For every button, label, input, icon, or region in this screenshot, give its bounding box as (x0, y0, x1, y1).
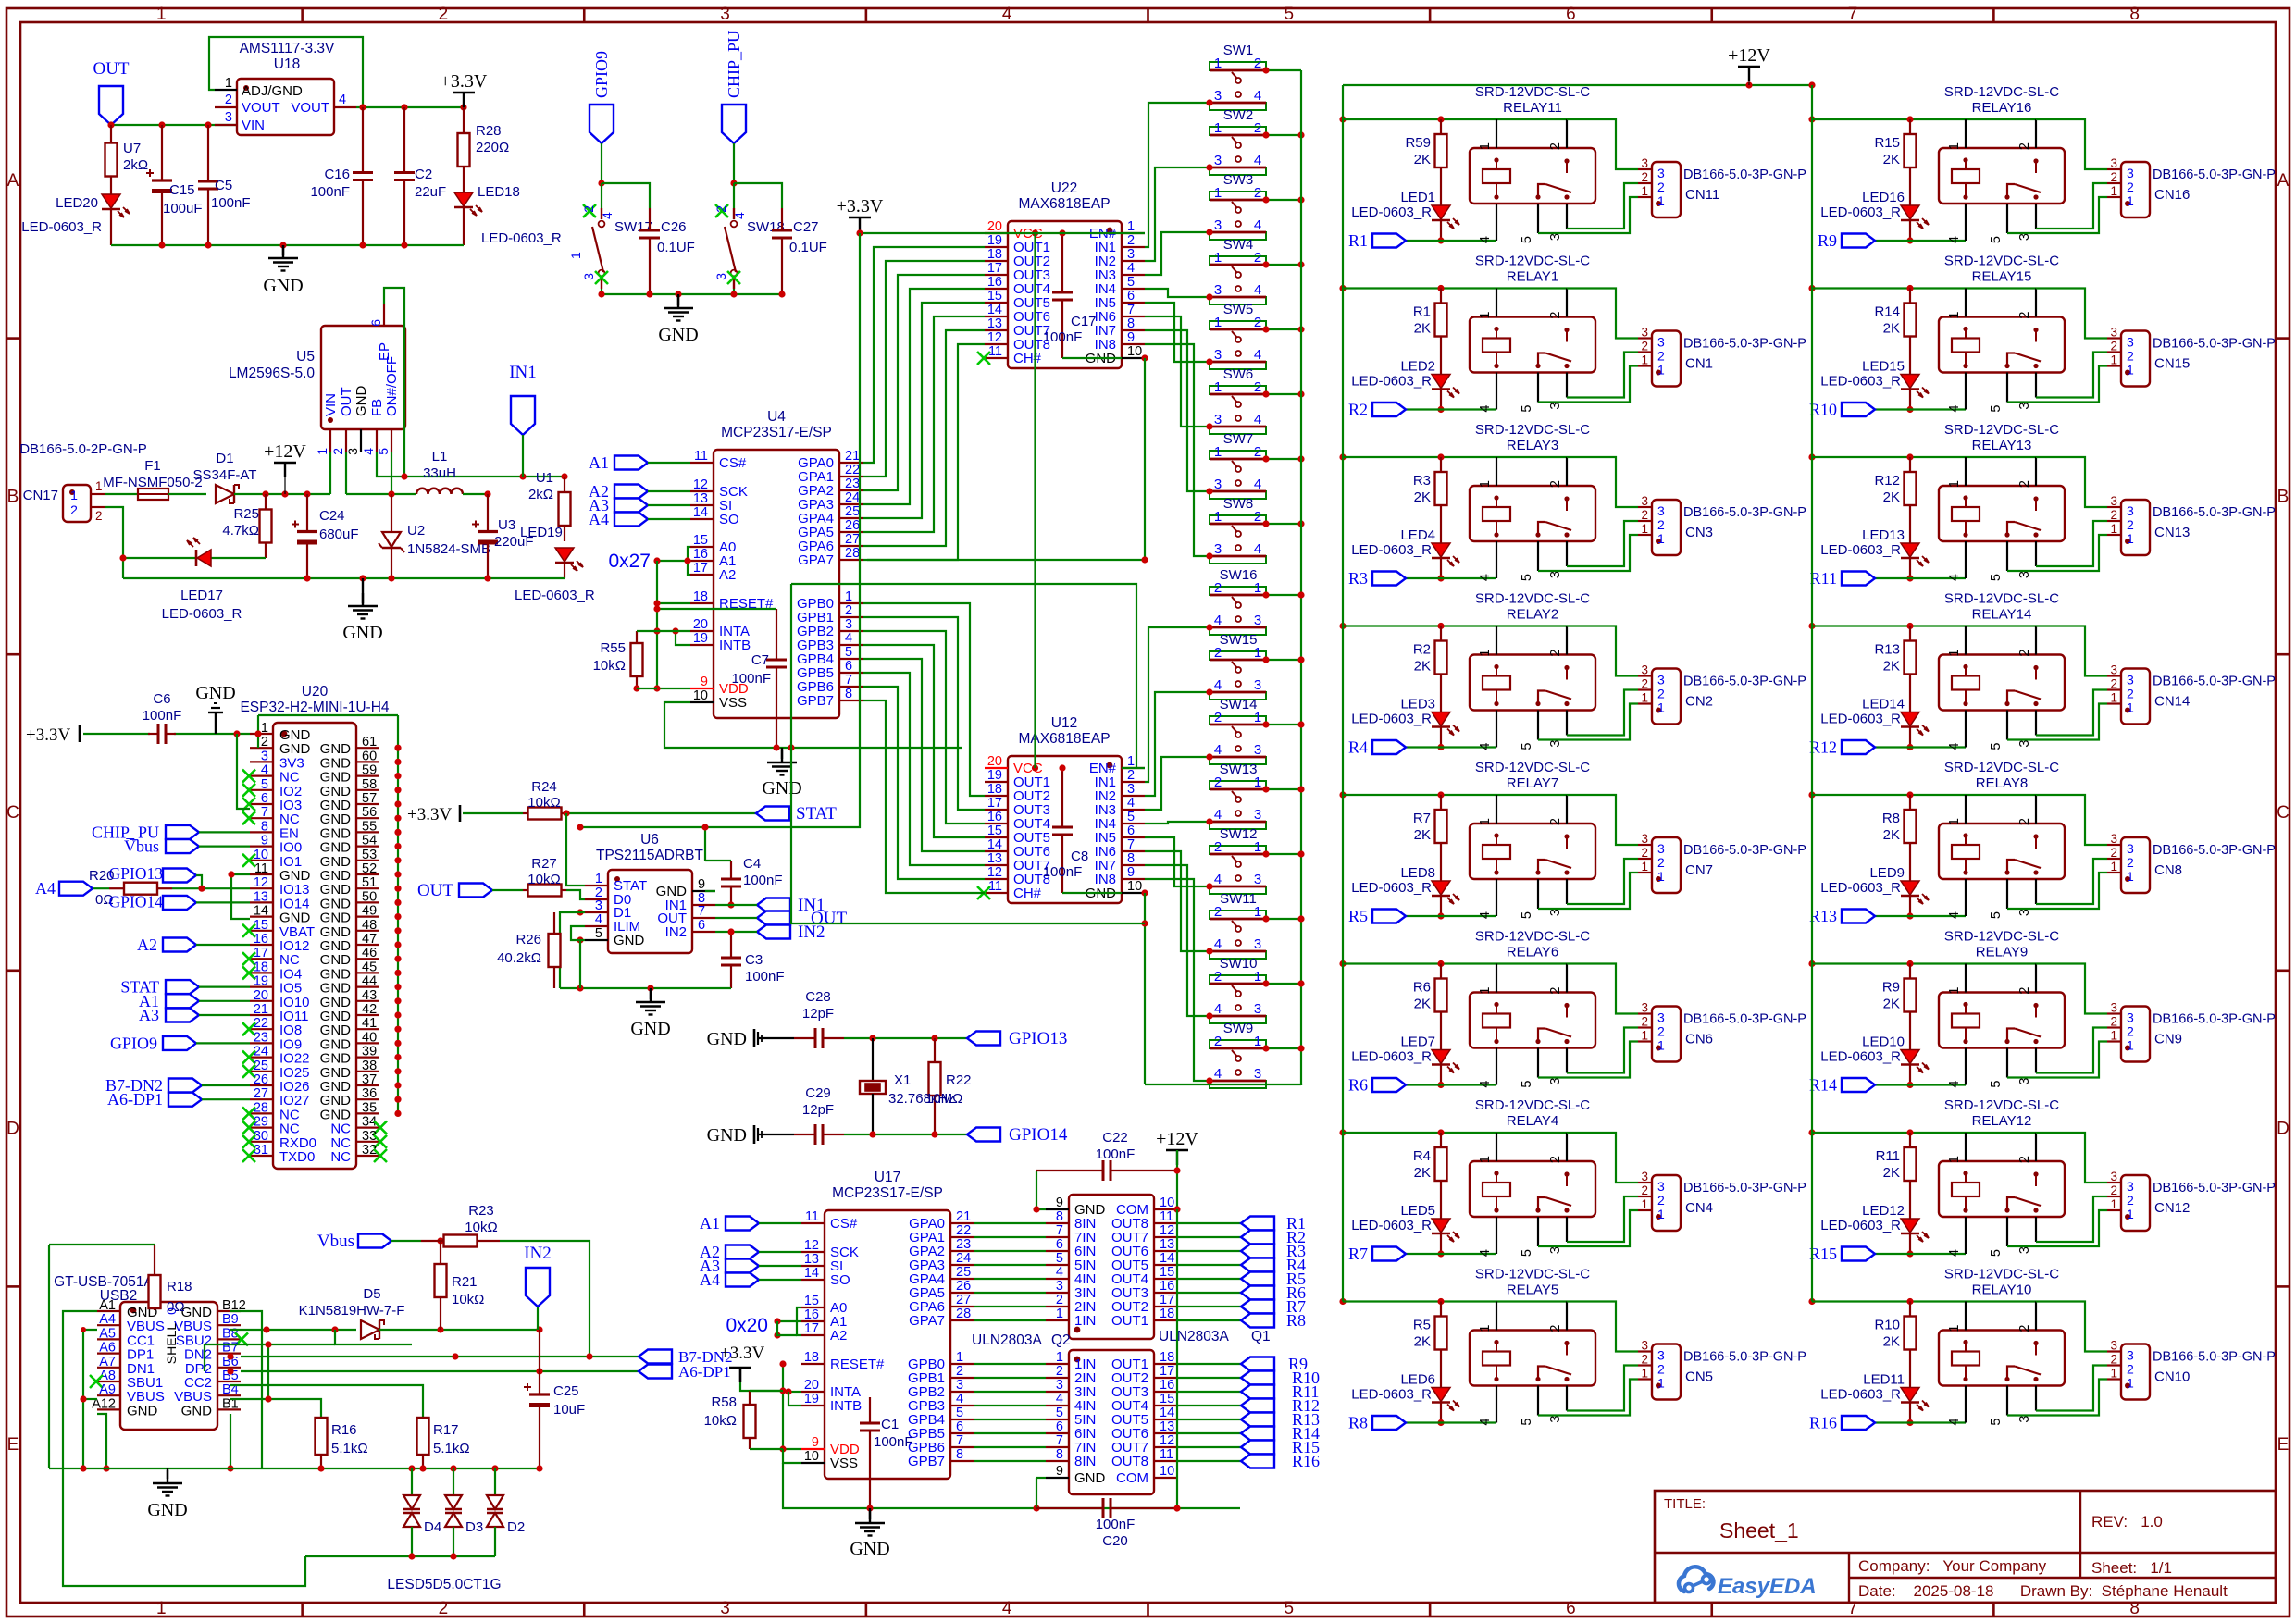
svg-text:RELAY7: RELAY7 (1507, 775, 1558, 791)
svg-text:25: 25 (956, 1265, 971, 1280)
svg-text:SW9: SW9 (1223, 1021, 1254, 1036)
svg-text:U12: U12 (1051, 715, 1077, 731)
svg-text:Q2: Q2 (1051, 1332, 1071, 1348)
resistor R27 10k (523, 856, 566, 897)
svg-text:6: 6 (1566, 1599, 1576, 1618)
wire cross h1 (867, 556, 1148, 563)
svg-text:3: 3 (956, 1378, 963, 1393)
resistor R22 10M (925, 1038, 972, 1134)
svg-text:1: 1 (1214, 56, 1222, 71)
svg-text:3: 3 (2127, 673, 2134, 688)
svg-text:44: 44 (362, 974, 377, 989)
svg-text:100nF: 100nF (731, 671, 771, 687)
svg-text:2: 2 (2017, 312, 2032, 319)
connector USB2 GT-USB-7051A (54, 1274, 248, 1430)
relay RELAY11 cell (1339, 84, 1806, 250)
svg-text:SW17: SW17 (614, 219, 652, 235)
wire GND rail (123, 577, 565, 579)
svg-text:49: 49 (362, 904, 377, 919)
svg-text:6: 6 (261, 791, 268, 806)
wire (601, 143, 602, 183)
regulator U18 AMS1117-3.3V (215, 41, 356, 135)
svg-text:0x20: 0x20 (726, 1315, 768, 1336)
svg-text:2: 2 (1254, 250, 1261, 266)
switch SW12 (1210, 826, 1266, 894)
flag A3 to SI (589, 496, 690, 514)
svg-text:2: 2 (1214, 839, 1222, 855)
svg-text:2K: 2K (1883, 659, 1900, 675)
svg-text:4: 4 (1478, 1419, 1493, 1426)
svg-text:4: 4 (1947, 1081, 1962, 1088)
svg-text:11: 11 (694, 449, 708, 464)
svg-text:+3.3V: +3.3V (837, 196, 884, 217)
svg-text:SW5: SW5 (1223, 302, 1254, 317)
svg-text:5: 5 (1127, 275, 1135, 290)
wire GND rail (602, 289, 782, 294)
wire 3V3 branch (237, 734, 250, 809)
svg-text:A2: A2 (830, 1328, 847, 1344)
svg-text:R17: R17 (433, 1422, 459, 1438)
wire SW2 pin2 to bus (1262, 131, 1304, 138)
svg-text:2: 2 (1254, 185, 1261, 201)
svg-text:RELAY14: RELAY14 (1972, 607, 2032, 623)
capacitor C28 12pF (794, 989, 844, 1048)
svg-text:GPA7: GPA7 (909, 1313, 945, 1329)
svg-text:9: 9 (698, 877, 705, 892)
svg-text:1: 1 (1056, 1307, 1063, 1321)
svg-text:20: 20 (254, 988, 268, 1003)
svg-text:10kΩ: 10kΩ (465, 1220, 497, 1235)
net label 0x20 (726, 1315, 768, 1336)
svg-text:3: 3 (1056, 1279, 1063, 1294)
svg-text:R12: R12 (1874, 473, 1900, 489)
svg-text:R21: R21 (452, 1274, 478, 1290)
svg-text:1: 1 (1947, 987, 1962, 995)
junction (304, 575, 490, 581)
wire switch bus bank1 (1300, 70, 1302, 1085)
svg-text:GPA7: GPA7 (798, 552, 834, 568)
svg-text:LED9: LED9 (1869, 865, 1905, 881)
svg-text:SW1: SW1 (1223, 43, 1254, 58)
junction (198, 886, 205, 892)
svg-text:RELAY3: RELAY3 (1507, 438, 1558, 453)
svg-text:RELAY11: RELAY11 (1503, 100, 1562, 116)
diode D3 LESD5D (445, 1468, 483, 1556)
logo EasyEDA (1679, 1567, 1817, 1599)
svg-text:2: 2 (1641, 508, 1648, 522)
svg-text:R27: R27 (531, 856, 557, 872)
svg-text:SRD-12VDC-SL-C: SRD-12VDC-SL-C (1944, 84, 2059, 100)
power +3.3V R24 (407, 805, 523, 824)
svg-text:R22: R22 (946, 1072, 972, 1088)
svg-text:100nF: 100nF (1043, 864, 1083, 880)
svg-text:1: 1 (1214, 315, 1222, 330)
svg-text:2: 2 (2127, 1193, 2134, 1208)
wire (844, 1131, 967, 1137)
svg-text:3: 3 (1254, 1001, 1261, 1017)
svg-text:GND: GND (630, 1019, 670, 1039)
svg-text:GND: GND (707, 1125, 747, 1146)
svg-text:SO: SO (719, 512, 739, 527)
svg-text:LED-0603_R: LED-0603_R (1351, 712, 1432, 727)
svg-text:2: 2 (1214, 904, 1222, 920)
svg-text:3: 3 (225, 110, 232, 125)
flag A2 U17 (700, 1243, 801, 1261)
svg-text:6: 6 (1056, 1237, 1063, 1252)
svg-text:R16: R16 (1292, 1452, 1320, 1470)
svg-text:1: 1 (156, 1599, 167, 1618)
relay RELAY15 cell (1808, 254, 2276, 419)
svg-text:2: 2 (1056, 1364, 1063, 1379)
svg-text:R6: R6 (1413, 980, 1431, 996)
LED LED20 (21, 194, 130, 245)
svg-text:SRD-12VDC-SL-C: SRD-12VDC-SL-C (1944, 591, 2059, 607)
svg-text:3: 3 (1056, 1378, 1063, 1393)
svg-text:Sheet_1: Sheet_1 (1719, 1518, 1799, 1542)
svg-text:8: 8 (1056, 1209, 1063, 1224)
svg-text:1: 1 (2110, 860, 2117, 873)
svg-text:SW12: SW12 (1220, 826, 1258, 842)
svg-text:SW10: SW10 (1220, 956, 1258, 972)
svg-text:CN16: CN16 (2154, 187, 2190, 203)
svg-text:1IN: 1IN (1074, 1313, 1096, 1329)
svg-text:2K: 2K (1414, 659, 1431, 675)
svg-text:1: 1 (1478, 480, 1493, 488)
svg-text:17: 17 (804, 1321, 819, 1336)
svg-text:12: 12 (1160, 1223, 1174, 1238)
wire CN17 pin2 drop (105, 507, 123, 578)
svg-text:5: 5 (261, 777, 268, 792)
junction (730, 180, 737, 186)
svg-text:24: 24 (956, 1251, 971, 1266)
svg-text:MCP23S17-E/SP: MCP23S17-E/SP (832, 1185, 943, 1201)
svg-text:3: 3 (1254, 872, 1261, 887)
IC U22 MAX6818EAP (977, 180, 1145, 368)
svg-text:12pF: 12pF (802, 1006, 834, 1022)
svg-text:DB166-5.0-3P-GN-P: DB166-5.0-3P-GN-P (2153, 843, 2276, 858)
svg-text:LED12: LED12 (1862, 1203, 1905, 1219)
svg-text:R4: R4 (1413, 1148, 1431, 1164)
svg-text:E: E (7, 1435, 19, 1455)
junction (158, 242, 407, 248)
svg-text:14: 14 (987, 837, 1002, 852)
svg-text:R11: R11 (1810, 569, 1837, 588)
svg-text:1: 1 (1657, 193, 1665, 208)
flag A4 to SO (589, 510, 690, 528)
svg-text:4: 4 (1056, 1392, 1063, 1406)
svg-text:MF-NSMF050-2: MF-NSMF050-2 (103, 475, 203, 490)
switch SW4 (1210, 237, 1266, 304)
wire SW15 pin1 to bus (1262, 656, 1304, 663)
svg-text:2: 2 (714, 205, 728, 213)
svg-text:VIN: VIN (323, 393, 339, 416)
ground U6 (630, 988, 670, 1039)
flag A6-DP1 (107, 1090, 250, 1109)
svg-text:U3: U3 (498, 517, 515, 533)
svg-text:C22: C22 (1102, 1130, 1128, 1146)
svg-text:R1: R1 (1348, 231, 1368, 250)
svg-text:5: 5 (1989, 743, 2004, 750)
wire SW9 pin4 staircase (1145, 879, 1213, 1084)
flag A3 U17 (700, 1257, 801, 1275)
svg-text:680uF: 680uF (319, 527, 359, 542)
flags R9-R16 outputs (1177, 1355, 1320, 1470)
svg-text:1: 1 (1641, 860, 1648, 873)
switch SW2 (1210, 107, 1266, 175)
wire anode rail (234, 493, 330, 495)
svg-text:18: 18 (804, 1350, 819, 1365)
svg-text:13: 13 (987, 316, 1002, 331)
svg-text:R15: R15 (1874, 135, 1900, 151)
svg-text:LED-0603_R: LED-0603_R (1820, 1049, 1901, 1065)
svg-text:4: 4 (1947, 743, 1962, 750)
svg-text:R14: R14 (1874, 304, 1900, 320)
svg-text:1: 1 (956, 1350, 963, 1365)
svg-text:17: 17 (987, 261, 1002, 276)
svg-text:1: 1 (1947, 818, 1962, 825)
svg-text:NC: NC (330, 1149, 351, 1165)
wire SW4 pin3 staircase (1145, 289, 1213, 301)
junction (119, 554, 126, 561)
wire (602, 183, 650, 208)
svg-text:20: 20 (987, 754, 1002, 769)
svg-text:LED-0603_R: LED-0603_R (1820, 374, 1901, 390)
svg-text:EasyEDA: EasyEDA (1718, 1574, 1817, 1599)
svg-text:4: 4 (1254, 347, 1261, 363)
svg-text:10kΩ: 10kΩ (593, 658, 626, 674)
wire nest U22 OUT to U4 GPA (863, 247, 985, 560)
svg-text:3: 3 (2017, 1078, 2032, 1085)
ground flag up (195, 683, 235, 734)
svg-text:A4: A4 (35, 879, 56, 898)
svg-text:56: 56 (362, 805, 377, 820)
IC U6 TPS2115ADRBT (585, 832, 715, 953)
svg-text:CN1: CN1 (1685, 356, 1713, 372)
svg-text:3: 3 (2110, 494, 2117, 508)
svg-text:U18: U18 (274, 56, 300, 72)
svg-text:D: D (6, 1120, 19, 1139)
svg-text:1: 1 (2127, 1376, 2134, 1391)
svg-text:18: 18 (693, 589, 708, 604)
svg-text:3: 3 (2127, 335, 2134, 350)
svg-text:VOUT: VOUT (291, 100, 329, 116)
svg-text:1: 1 (1254, 969, 1261, 985)
svg-text:2: 2 (1548, 650, 1563, 657)
resistor R58 10k (704, 1391, 783, 1449)
relay RELAY13 cell (1808, 422, 2276, 588)
svg-text:GPB7: GPB7 (797, 693, 834, 709)
svg-text:Date: 2025-08-18 Drawn: Date: 2025-08-18 Drawn By: Stéphane Hena… (1858, 1582, 2228, 1600)
svg-text:DB166-5.0-3P-GN-P: DB166-5.0-3P-GN-P (2153, 1350, 2276, 1365)
svg-text:R8: R8 (1286, 1311, 1306, 1330)
svg-text:LED10: LED10 (1862, 1035, 1905, 1050)
flag STAT net port (756, 804, 837, 824)
svg-text:3: 3 (714, 273, 728, 280)
svg-text:LED-0603_R: LED-0603_R (1820, 542, 1901, 558)
svg-text:3: 3 (1548, 233, 1563, 241)
svg-text:6: 6 (698, 918, 705, 933)
wire SW10 pin4 staircase (1145, 865, 1213, 1020)
wire U20 GND bus right (258, 715, 398, 1113)
switch SW11 (1210, 891, 1266, 959)
svg-text:10: 10 (804, 1449, 819, 1464)
svg-text:A1: A1 (700, 1214, 720, 1233)
svg-text:CN4: CN4 (1685, 1200, 1713, 1216)
svg-text:L1: L1 (432, 449, 448, 465)
svg-text:LED20: LED20 (56, 195, 98, 211)
wire GND pin11 pin14 (228, 871, 250, 919)
svg-text:4: 4 (1478, 743, 1493, 750)
switch SW17 (568, 183, 652, 289)
svg-text:3: 3 (2017, 909, 2032, 916)
wire SW5 pin2 to bus (1262, 326, 1304, 332)
svg-text:1: 1 (1127, 219, 1135, 234)
svg-text:GPIO14: GPIO14 (109, 892, 164, 911)
svg-text:CN13: CN13 (2154, 525, 2190, 540)
wire SW14 pin1 to bus (1262, 721, 1304, 727)
svg-text:D4: D4 (424, 1519, 441, 1535)
svg-text:R23: R23 (468, 1203, 494, 1219)
junction (598, 180, 604, 186)
svg-text:4: 4 (1478, 1081, 1493, 1088)
svg-text:3: 3 (1254, 613, 1261, 628)
svg-text:21: 21 (845, 449, 860, 464)
IC U12 MAX6818EAP (977, 715, 1145, 903)
svg-text:100nF: 100nF (1096, 1517, 1136, 1532)
svg-text:LED-0603_R: LED-0603_R (1820, 712, 1901, 727)
svg-text:MAX6818EAP: MAX6818EAP (1018, 196, 1110, 212)
capacitor C16 (310, 107, 373, 245)
svg-text:6: 6 (845, 659, 852, 674)
svg-text:B: B (2277, 487, 2290, 506)
resistor R20 (89, 868, 250, 908)
svg-text:41: 41 (362, 1016, 377, 1031)
svg-text:Sheet: 1/1: Sheet: 1/1 (2091, 1559, 2172, 1577)
svg-text:5: 5 (1285, 1599, 1295, 1618)
switch SW8 (1210, 496, 1266, 564)
svg-text:SW18: SW18 (747, 219, 785, 235)
capacitor C26 (639, 208, 695, 294)
ground flag C28 (707, 1029, 794, 1049)
wire SW3 pin2 to bus (1262, 196, 1304, 203)
flag A6-DP1 U17 (639, 1363, 731, 1381)
svg-text:14: 14 (254, 904, 268, 919)
svg-text:SW16: SW16 (1220, 567, 1258, 583)
svg-text:LED5: LED5 (1400, 1203, 1435, 1219)
svg-text:1: 1 (2127, 531, 2134, 546)
wire dn dp long (227, 1353, 639, 1359)
svg-text:R16: R16 (331, 1422, 357, 1438)
wire D0 (566, 890, 585, 944)
svg-text:0.1UF: 0.1UF (657, 240, 695, 255)
switch SW14 (1210, 697, 1266, 764)
svg-text:16: 16 (987, 810, 1002, 824)
svg-text:U22: U22 (1051, 180, 1077, 196)
svg-text:12: 12 (693, 477, 708, 492)
svg-text:2: 2 (1657, 349, 1665, 364)
svg-text:60: 60 (362, 749, 377, 763)
svg-text:1: 1 (1214, 120, 1222, 136)
svg-text:1: 1 (1657, 869, 1665, 884)
svg-text:2: 2 (95, 509, 103, 523)
svg-text:5: 5 (1520, 911, 1534, 919)
junction (359, 104, 466, 110)
svg-text:1: 1 (595, 872, 602, 886)
crystal X1 32.768kHz (860, 1038, 955, 1134)
capacitor U3 220uF (472, 494, 534, 578)
svg-text:5: 5 (1989, 1081, 2004, 1088)
svg-text:3: 3 (1657, 673, 1665, 688)
svg-text:7: 7 (845, 673, 852, 688)
svg-text:2: 2 (2017, 650, 2032, 657)
svg-text:7: 7 (1848, 5, 1858, 24)
svg-text:53: 53 (362, 848, 377, 862)
svg-text:1: 1 (1254, 839, 1261, 855)
svg-text:2: 2 (1254, 56, 1261, 71)
svg-text:5: 5 (1520, 1081, 1534, 1088)
svg-text:R26: R26 (515, 932, 541, 948)
svg-text:3: 3 (1548, 909, 1563, 916)
svg-text:7: 7 (1056, 1223, 1063, 1238)
svg-text:3: 3 (720, 5, 730, 24)
flag GPIO14 xtal (967, 1125, 1068, 1145)
svg-text:10: 10 (1160, 1464, 1174, 1479)
svg-text:4: 4 (1478, 405, 1493, 413)
svg-text:4.7kΩ: 4.7kΩ (222, 523, 259, 539)
svg-text:2: 2 (1254, 509, 1261, 525)
svg-text:CN7: CN7 (1685, 862, 1713, 878)
svg-text:57: 57 (362, 791, 377, 806)
svg-text:3: 3 (1657, 1348, 1665, 1363)
power +3.3V U17 (720, 1344, 783, 1391)
wire left relay bus (1342, 85, 1344, 1302)
svg-text:2: 2 (1548, 480, 1563, 488)
svg-text:ESP32-H2-MINI-1U-H4: ESP32-H2-MINI-1U-H4 (240, 700, 389, 715)
svg-text:R8: R8 (1348, 1414, 1368, 1432)
svg-text:4: 4 (1254, 477, 1261, 492)
svg-text:A6-DP1: A6-DP1 (107, 1090, 163, 1109)
svg-text:3: 3 (1254, 807, 1261, 823)
svg-text:4: 4 (1214, 807, 1222, 823)
junction GND bus dots (394, 745, 401, 1117)
resistor R28 (458, 107, 510, 192)
svg-text:OUT: OUT (417, 881, 453, 900)
relay RELAY14 cell (1808, 591, 2276, 757)
wire switch bus bottom (1145, 1084, 1301, 1085)
svg-text:DB166-5.0-3P-GN-P: DB166-5.0-3P-GN-P (1683, 675, 1806, 689)
wire vbus line (230, 1326, 356, 1332)
svg-text:SRD-12VDC-SL-C: SRD-12VDC-SL-C (1944, 254, 2059, 269)
svg-text:A2: A2 (719, 567, 736, 583)
svg-text:21: 21 (956, 1209, 971, 1224)
svg-text:SW11: SW11 (1220, 891, 1257, 907)
svg-text:1: 1 (2127, 700, 2134, 715)
flag Vbus (124, 837, 250, 856)
wire cross h2 (791, 584, 1136, 768)
power +3.3V (441, 71, 488, 107)
wire SW9 pin1 to bus (1262, 1045, 1304, 1051)
svg-text:10kΩ: 10kΩ (527, 872, 560, 887)
svg-text:DB166-5.0-3P-GN-P: DB166-5.0-3P-GN-P (1683, 1181, 1806, 1196)
svg-text:23: 23 (845, 477, 860, 491)
svg-text:R2: R2 (1413, 642, 1431, 658)
svg-text:1: 1 (568, 252, 583, 259)
relay RELAY6 cell (1339, 929, 1806, 1095)
svg-text:CHIP_PU: CHIP_PU (725, 31, 743, 98)
svg-text:6: 6 (956, 1419, 963, 1434)
svg-text:2: 2 (1214, 580, 1222, 596)
svg-text:3: 3 (1254, 936, 1261, 952)
